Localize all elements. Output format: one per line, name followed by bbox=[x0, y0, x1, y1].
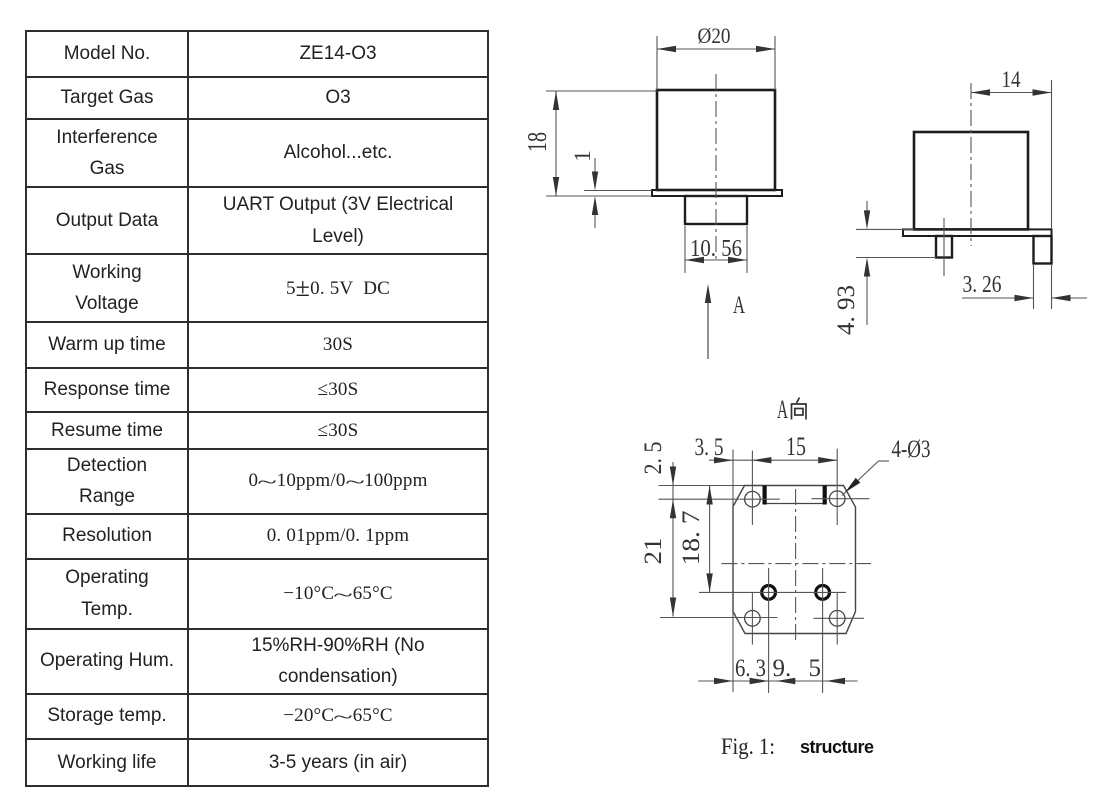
left pin center line bbox=[943, 218, 945, 276]
pin row center line bbox=[699, 591, 846, 593]
center line (side view) bbox=[970, 83, 972, 246]
center line (front view) bbox=[715, 74, 717, 263]
svg-text:structure: structure bbox=[800, 737, 874, 757]
bottom hole center extension line bbox=[660, 617, 778, 619]
view arrow A bbox=[707, 295, 709, 359]
left edge extension (bottom) bbox=[732, 612, 734, 692]
base plate (side view) bbox=[903, 229, 1052, 236]
svg-text:A: A bbox=[777, 395, 788, 424]
svg-text:6. 3: 6. 3 bbox=[735, 655, 766, 682]
dim 3.5 / 15 line bbox=[709, 459, 837, 461]
dim Ø20 extension lines bbox=[656, 36, 658, 90]
sensor body (side view) bbox=[914, 132, 1028, 229]
thick tick right bbox=[823, 486, 827, 505]
svg-text:18. 7: 18. 7 bbox=[678, 511, 705, 566]
svg-text:21: 21 bbox=[640, 538, 667, 565]
top edge extension line bbox=[659, 485, 745, 487]
dim 10.56 line and arrows bbox=[685, 259, 747, 261]
leader 4-Ø3 bbox=[842, 461, 879, 496]
svg-text:4. 93: 4. 93 bbox=[833, 285, 860, 335]
dim 2.5 / 21 line and arrows bbox=[672, 462, 674, 617]
dim 4.93 line and arrows (outside) bbox=[866, 201, 868, 215]
vertical center line (dash-dot) bbox=[795, 489, 797, 640]
hole top-right bbox=[829, 491, 845, 507]
svg-text:3. 26: 3. 26 bbox=[963, 272, 1002, 298]
pin left (bold circle) bbox=[762, 586, 776, 600]
dim 14 extension line bbox=[1051, 80, 1053, 229]
horizontal center line (dash-dot) bbox=[721, 563, 871, 565]
dim 6.3 / 9.5 line bbox=[698, 680, 857, 682]
dim 3.26 line and arrows (outside) bbox=[962, 297, 1034, 299]
bottom plug (front view) bbox=[685, 196, 747, 224]
hole top-left bbox=[745, 491, 761, 507]
footprint outline (octagon) bbox=[733, 486, 856, 634]
dim 4.93 extension lines bbox=[856, 228, 914, 230]
hanzi 'xiang' glyph bbox=[791, 398, 807, 420]
dim 18 extension lines bbox=[546, 90, 657, 92]
dim 18 line and arrows bbox=[555, 91, 557, 196]
dim 3.26 extension lines bbox=[1033, 265, 1035, 309]
dim 18.7 line and arrows bbox=[709, 486, 711, 593]
dim Ø20 line and arrows bbox=[657, 48, 775, 50]
sensor body (front view) bbox=[657, 90, 775, 190]
flange (front view) bbox=[652, 190, 782, 196]
svg-text:1: 1 bbox=[570, 150, 595, 162]
svg-text:5: 5 bbox=[809, 655, 822, 682]
dim 14 line and arrows bbox=[971, 92, 1052, 94]
svg-text:A: A bbox=[733, 292, 745, 319]
inner strip line bbox=[765, 503, 825, 505]
svg-text:Fig. 1:: Fig. 1: bbox=[721, 734, 775, 759]
dim 10.56 extension lines bbox=[684, 226, 686, 273]
svg-text:4-Ø3: 4-Ø3 bbox=[892, 436, 931, 463]
top hole center extension line bbox=[659, 498, 740, 500]
svg-text:3. 5: 3. 5 bbox=[695, 434, 724, 461]
dim 1 extension line bbox=[584, 190, 652, 192]
svg-text:10. 56: 10. 56 bbox=[690, 236, 742, 262]
svg-text:15: 15 bbox=[786, 432, 806, 461]
hole bottom-left bbox=[745, 611, 761, 627]
svg-text:18: 18 bbox=[522, 132, 552, 152]
svg-text:9.: 9. bbox=[773, 655, 792, 682]
thick tick left bbox=[762, 486, 766, 505]
left pin (side view) bbox=[936, 236, 952, 258]
svg-text:14: 14 bbox=[1002, 67, 1021, 92]
svg-text:2. 5: 2. 5 bbox=[640, 442, 667, 475]
left edge extension (top) bbox=[732, 450, 734, 507]
svg-text:Ø20: Ø20 bbox=[698, 23, 731, 48]
pin right (bold circle) bbox=[816, 586, 830, 600]
right pin (side view) bbox=[1034, 236, 1052, 264]
hole bottom-right bbox=[829, 611, 845, 627]
dim 1 line and arrows (outside) bbox=[594, 158, 596, 178]
